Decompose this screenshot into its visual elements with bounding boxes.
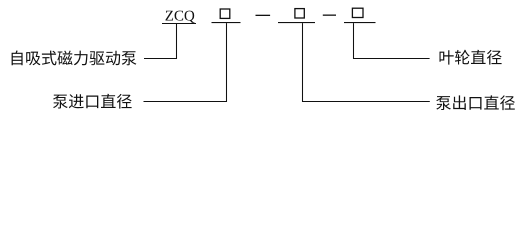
leader line from box 3 down-right to impeller label xyxy=(354,23,430,58)
box 2 (outlet diameter placeholder) xyxy=(295,9,304,18)
label 叶轮直径 (impeller diameter) xyxy=(440,50,502,65)
leader line from ZCQ down-left to series label xyxy=(144,24,177,59)
label 泵进口直径 (pump inlet diameter) xyxy=(53,94,132,109)
label 泵出口直径 (pump outlet diameter) xyxy=(436,95,515,110)
underline under box 1 xyxy=(212,22,241,23)
underline under box 3 xyxy=(344,22,376,23)
dash separator 2 xyxy=(323,15,336,16)
underline under ZCQ xyxy=(162,23,196,24)
label 自吸式磁力驱动泵 (self-priming magnetic drive pump) xyxy=(12,51,137,66)
box 1 (inlet diameter placeholder) xyxy=(220,9,230,18)
leader line from box 1 down-left to inlet label xyxy=(144,23,227,101)
underline under box 2 xyxy=(278,22,315,23)
dash separator 1 xyxy=(256,15,271,16)
leader line from box 2 down-right to outlet label xyxy=(303,23,430,101)
box 3 (impeller diameter placeholder) xyxy=(352,8,363,17)
text ZCQ (pump series code) xyxy=(166,11,195,23)
